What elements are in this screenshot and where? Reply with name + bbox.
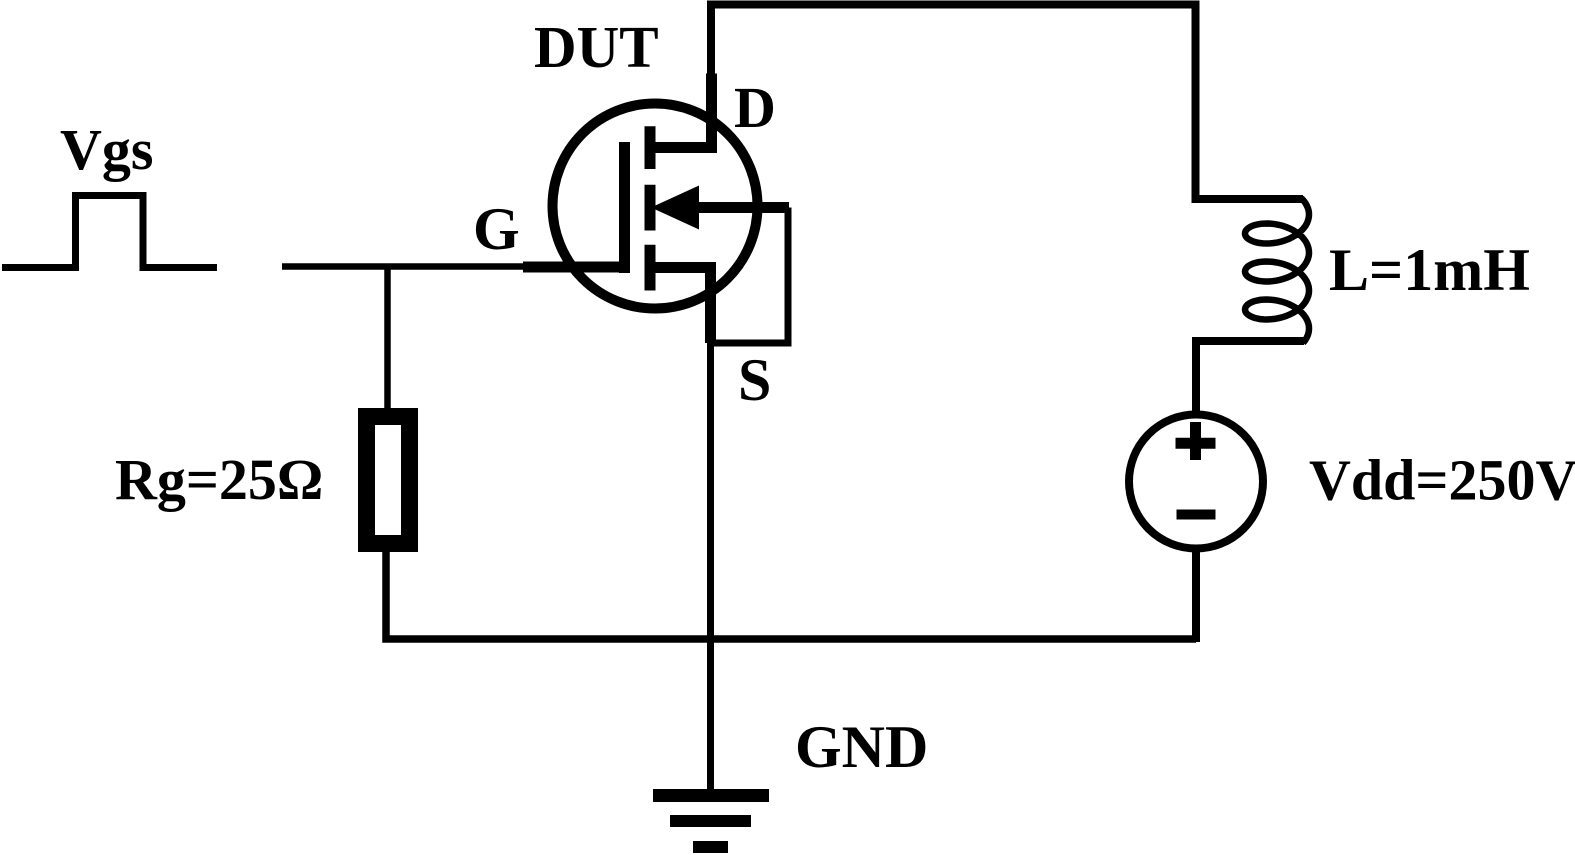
transistor DUT MOSFET body circle xyxy=(553,104,758,309)
transistor source connection xyxy=(655,268,711,344)
svg-text:Rg=25Ω: Rg=25Ω xyxy=(115,447,323,512)
transistor body line xyxy=(680,202,789,213)
svg-text:Vgs: Vgs xyxy=(60,117,153,182)
ground symbol bar3 xyxy=(693,841,728,853)
svg-text:DUT: DUT xyxy=(534,14,659,80)
transistor channel segment middle xyxy=(645,185,656,231)
wire gate to resistor vertical xyxy=(384,267,391,411)
inductor L1 coil xyxy=(1245,198,1309,343)
svg-text:S: S xyxy=(738,347,771,413)
wire resistor to bottom rail xyxy=(386,552,1196,639)
svg-text:L=1mH: L=1mH xyxy=(1329,237,1530,303)
voltage source minus sign xyxy=(1177,510,1216,520)
voltage source plus sign xyxy=(1176,422,1216,460)
svg-text:GND: GND xyxy=(795,714,928,780)
voltage source Vdd circle xyxy=(1129,415,1263,549)
transistor gate bar xyxy=(619,142,630,273)
wire inductor bottom lead xyxy=(1196,341,1304,415)
svg-text:G: G xyxy=(473,196,520,262)
ground symbol bar1 xyxy=(653,789,769,802)
transistor drain connection xyxy=(655,74,712,148)
transistor channel segment bottom xyxy=(645,245,656,291)
svg-text:D: D xyxy=(734,75,776,140)
transistor gate lead xyxy=(523,262,630,273)
transistor channel segment top xyxy=(645,126,656,169)
wire gate horizontal xyxy=(282,263,525,270)
wire source to ground xyxy=(707,340,714,795)
svg-text:Vdd=250V: Vdd=250V xyxy=(1309,448,1575,513)
ground symbol bar2 xyxy=(670,815,751,827)
resistor Rg xyxy=(367,417,410,544)
wire top rail drain to inductor xyxy=(711,5,1303,200)
wire body to source bracket xyxy=(711,208,788,344)
transistor body arrow xyxy=(651,186,699,230)
wire voltage source to bottom rail xyxy=(1192,549,1200,643)
pulse source Vgs waveform xyxy=(2,196,217,268)
